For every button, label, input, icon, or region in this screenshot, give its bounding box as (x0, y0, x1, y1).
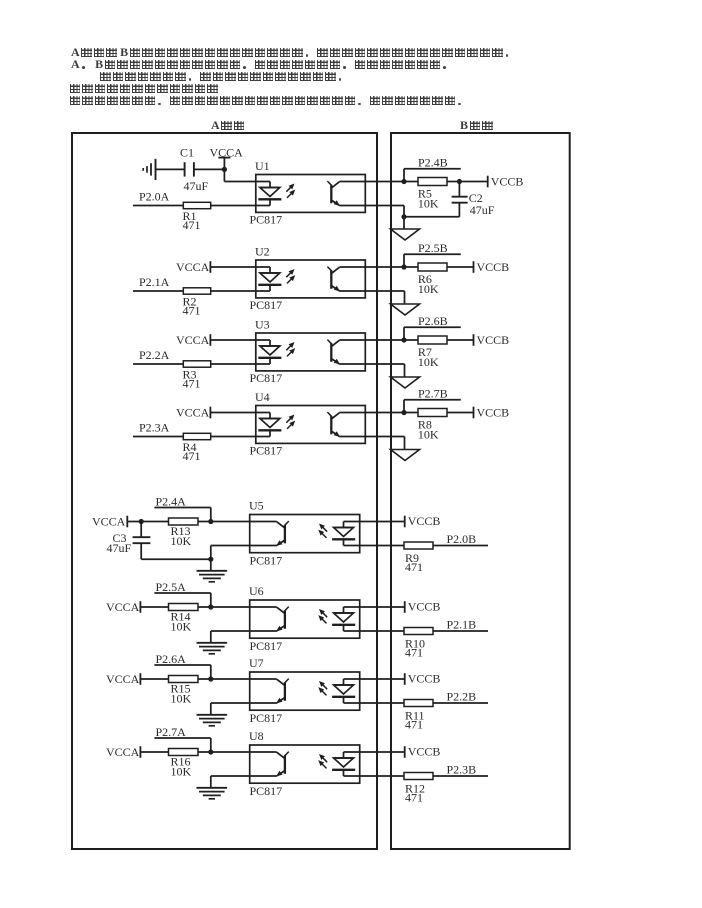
svg-text:PC817: PC817 (250, 371, 283, 385)
svg-text:471: 471 (183, 218, 201, 232)
svg-text:U8: U8 (249, 729, 264, 743)
svg-text:PC817: PC817 (250, 784, 283, 798)
svg-text:P2.7A: P2.7A (156, 725, 187, 739)
svg-text:VCCB: VCCB (477, 406, 510, 420)
svg-text:VCCA: VCCA (106, 672, 140, 686)
svg-text:10K: 10K (171, 620, 192, 634)
svg-text:VCCA: VCCA (176, 406, 210, 420)
svg-text:U5: U5 (249, 499, 264, 513)
svg-text:VCCB: VCCB (477, 333, 510, 347)
svg-text:47uF: 47uF (184, 179, 209, 193)
svg-text:PC817: PC817 (250, 554, 283, 568)
svg-text:VCCA: VCCA (92, 515, 126, 529)
svg-text:U1: U1 (255, 159, 270, 173)
svg-text:10K: 10K (418, 428, 439, 442)
svg-text:10K: 10K (171, 765, 192, 779)
svg-text:PC817: PC817 (250, 711, 283, 725)
svg-text:VCCA: VCCA (106, 745, 140, 759)
svg-text:PC817: PC817 (250, 639, 283, 653)
svg-text:10K: 10K (418, 197, 439, 211)
svg-text:P2.1B: P2.1B (447, 618, 477, 632)
svg-text:10K: 10K (418, 282, 439, 296)
svg-text:P2.7B: P2.7B (418, 387, 448, 401)
svg-text:U4: U4 (255, 390, 270, 404)
svg-text:471: 471 (183, 449, 201, 463)
svg-text:P2.0B: P2.0B (447, 532, 477, 546)
svg-text:10K: 10K (418, 355, 439, 369)
svg-text:VCCB: VCCB (477, 260, 510, 274)
svg-text:P2.0A: P2.0A (139, 190, 170, 204)
svg-text:P2.4B: P2.4B (418, 156, 448, 170)
svg-text:VCCA: VCCA (176, 333, 210, 347)
svg-text:VCCB: VCCB (408, 514, 441, 528)
svg-text:47uF: 47uF (470, 203, 495, 217)
svg-text:471: 471 (405, 718, 423, 732)
svg-text:P2.2A: P2.2A (139, 348, 170, 362)
svg-text:VCCA: VCCA (176, 260, 210, 274)
svg-text:P2.5A: P2.5A (156, 580, 187, 594)
svg-text:U3: U3 (255, 318, 270, 332)
svg-text:P2.6B: P2.6B (418, 314, 448, 328)
svg-text:10K: 10K (171, 692, 192, 706)
svg-text:P2.4A: P2.4A (156, 495, 187, 509)
svg-text:P2.3B: P2.3B (447, 763, 477, 777)
svg-text:47uF: 47uF (107, 541, 132, 555)
svg-text:U2: U2 (255, 245, 270, 259)
svg-text:VCCA: VCCA (106, 600, 140, 614)
svg-text:U7: U7 (249, 656, 264, 670)
svg-text:471: 471 (405, 646, 423, 660)
svg-text:VCCB: VCCB (408, 600, 441, 614)
svg-text:U6: U6 (249, 584, 264, 598)
svg-text:P2.3A: P2.3A (139, 421, 170, 435)
svg-text:VCCA: VCCA (210, 145, 244, 159)
svg-text:471: 471 (405, 560, 423, 574)
svg-text:10K: 10K (171, 534, 192, 548)
svg-text:VCCB: VCCB (408, 672, 441, 686)
svg-text:P2.1A: P2.1A (139, 275, 170, 289)
svg-text:471: 471 (183, 377, 201, 391)
svg-text:VCCB: VCCB (491, 175, 524, 189)
svg-text:P2.5B: P2.5B (418, 241, 448, 255)
svg-text:471: 471 (405, 791, 423, 805)
svg-text:P2.2B: P2.2B (447, 690, 477, 704)
svg-text:C1: C1 (180, 145, 194, 159)
svg-text:P2.6A: P2.6A (156, 652, 187, 666)
svg-text:VCCB: VCCB (408, 745, 441, 759)
svg-text:PC817: PC817 (250, 443, 283, 457)
svg-text:471: 471 (183, 304, 201, 318)
svg-text:PC817: PC817 (250, 298, 283, 312)
svg-text:PC817: PC817 (250, 212, 283, 226)
